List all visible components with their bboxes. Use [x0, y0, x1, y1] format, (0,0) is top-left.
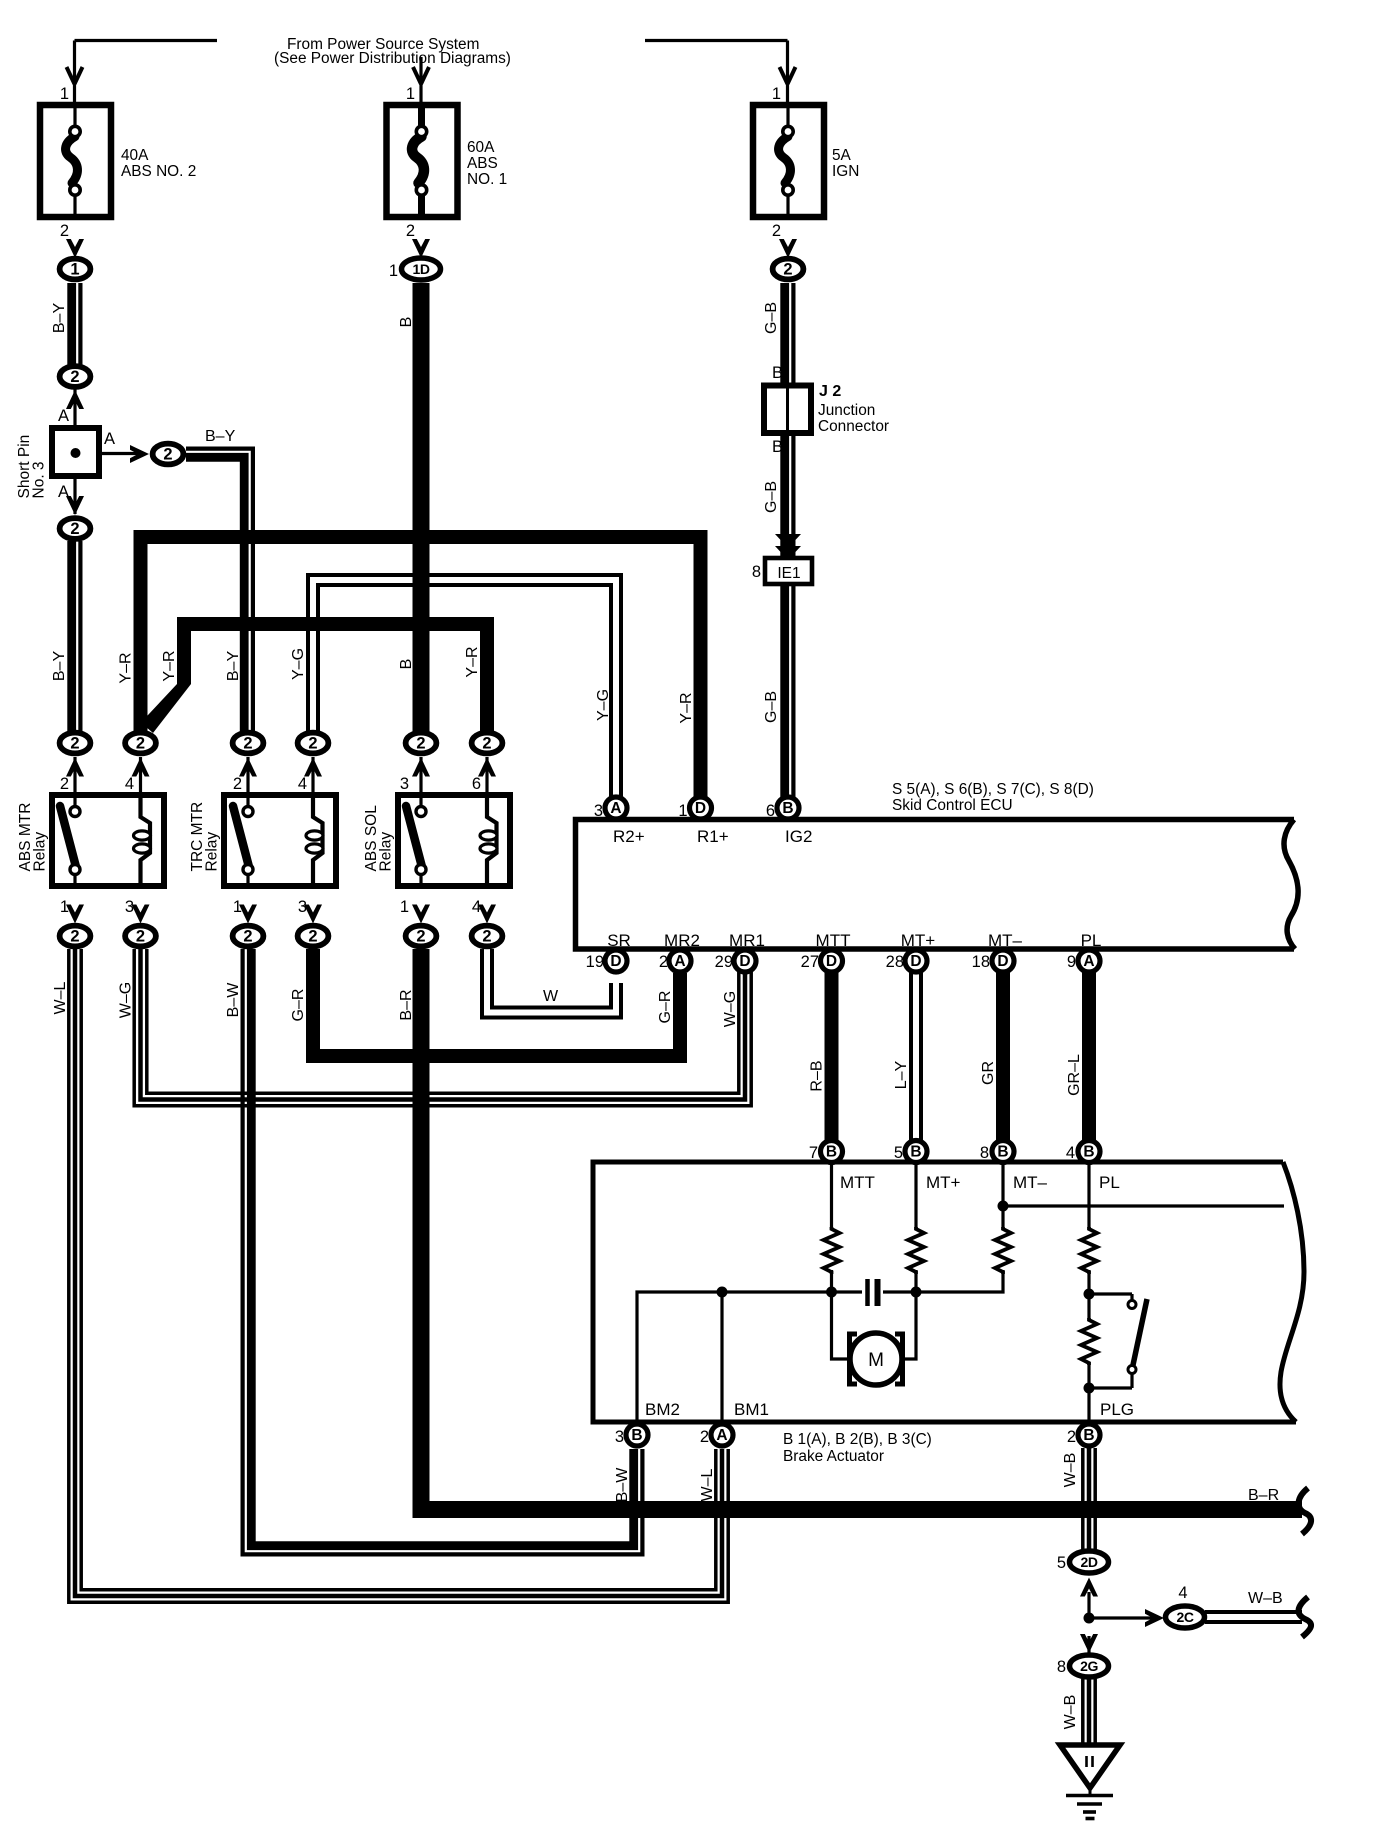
svg-text:S 5(A), S 6(B), S 7(C), S 8(D): S 5(A), S 6(B), S 7(C), S 8(D) — [892, 781, 1094, 798]
svg-text:G–B: G–B — [763, 691, 780, 723]
svg-text:4: 4 — [298, 775, 307, 793]
svg-text:D: D — [695, 800, 706, 817]
svg-text:A: A — [1083, 953, 1094, 970]
svg-text:1: 1 — [389, 262, 398, 280]
svg-text:2C: 2C — [1177, 1609, 1194, 1625]
svg-text:A: A — [610, 800, 621, 817]
svg-text:G–B: G–B — [763, 302, 780, 334]
svg-text:BM2: BM2 — [645, 1400, 680, 1419]
svg-text:29: 29 — [715, 953, 733, 971]
svg-text:BM1: BM1 — [734, 1400, 769, 1419]
svg-text:B: B — [772, 438, 783, 456]
svg-text:M: M — [868, 1350, 884, 1371]
svg-text:1: 1 — [400, 898, 409, 916]
svg-text:A: A — [58, 407, 69, 425]
svg-text:2: 2 — [70, 735, 79, 753]
svg-text:B: B — [910, 1144, 921, 1161]
svg-text:ABS NO. 2: ABS NO. 2 — [121, 163, 196, 180]
svg-text:1: 1 — [772, 85, 781, 103]
svg-text:A: A — [58, 483, 69, 501]
svg-text:Brake Actuator: Brake Actuator — [783, 1448, 884, 1465]
svg-text:B: B — [997, 1144, 1008, 1161]
svg-text:MT–: MT– — [988, 931, 1023, 950]
svg-text:2: 2 — [308, 735, 317, 753]
svg-text:2: 2 — [243, 928, 252, 946]
svg-text:B: B — [772, 364, 783, 382]
svg-text:PL: PL — [1099, 1173, 1120, 1192]
svg-text:3: 3 — [125, 898, 134, 916]
svg-text:MT–: MT– — [1013, 1173, 1048, 1192]
svg-text:B–W: B–W — [614, 1467, 631, 1503]
svg-text:G–R: G–R — [657, 991, 674, 1024]
svg-text:Relay: Relay — [378, 832, 395, 872]
svg-text:PLG: PLG — [1100, 1400, 1134, 1419]
svg-text:MTT: MTT — [816, 931, 851, 950]
svg-text:D: D — [610, 953, 621, 970]
svg-text:3: 3 — [615, 1428, 624, 1446]
svg-text:MR1: MR1 — [729, 931, 765, 950]
svg-text:D: D — [826, 953, 837, 970]
svg-text:NO. 1: NO. 1 — [467, 171, 507, 188]
svg-text:6: 6 — [472, 775, 481, 793]
svg-text:MR2: MR2 — [664, 931, 700, 950]
svg-text:1: 1 — [70, 261, 79, 279]
svg-text:IG2: IG2 — [785, 827, 812, 846]
svg-text:2: 2 — [136, 928, 145, 946]
svg-text:A: A — [674, 953, 685, 970]
svg-text:1: 1 — [60, 85, 69, 103]
svg-text:2: 2 — [416, 735, 425, 753]
svg-text:L–Y: L–Y — [893, 1060, 910, 1089]
svg-text:5A: 5A — [832, 147, 852, 164]
svg-text:R2+: R2+ — [613, 827, 645, 846]
svg-text:B: B — [631, 1427, 642, 1444]
svg-text:2: 2 — [243, 735, 252, 753]
svg-text:3: 3 — [594, 802, 603, 820]
svg-text:3: 3 — [400, 775, 409, 793]
svg-text:1: 1 — [678, 802, 687, 820]
svg-text:MTT: MTT — [840, 1173, 875, 1192]
svg-text:2D: 2D — [1081, 1554, 1098, 1570]
svg-text:Y–R: Y–R — [678, 692, 695, 723]
svg-text:2: 2 — [70, 520, 79, 538]
svg-text:19: 19 — [586, 953, 604, 971]
svg-text:B: B — [398, 659, 415, 670]
svg-text:2: 2 — [70, 368, 79, 386]
svg-text:1: 1 — [233, 898, 242, 916]
svg-text:7: 7 — [809, 1144, 818, 1162]
svg-text:J 2: J 2 — [819, 383, 841, 400]
svg-text:2: 2 — [482, 735, 491, 753]
svg-text:B: B — [782, 800, 793, 817]
svg-text:B: B — [398, 317, 415, 328]
svg-text:W–B: W–B — [1062, 1453, 1079, 1488]
svg-text:IGN: IGN — [832, 163, 859, 180]
svg-text:40A: 40A — [121, 147, 149, 164]
svg-text:B–R: B–R — [1248, 1487, 1279, 1504]
svg-text:2: 2 — [1067, 1428, 1076, 1446]
svg-text:2: 2 — [406, 222, 415, 240]
svg-text:W–L: W–L — [699, 1468, 716, 1501]
svg-text:SR: SR — [607, 931, 631, 950]
svg-text:5: 5 — [1057, 1554, 1066, 1572]
svg-text:Relay: Relay — [32, 832, 49, 872]
svg-text:27: 27 — [801, 953, 819, 971]
svg-text:4: 4 — [1066, 1144, 1075, 1162]
svg-text:2: 2 — [772, 222, 781, 240]
svg-text:PL: PL — [1081, 931, 1102, 950]
svg-text:Skid Control ECU: Skid Control ECU — [892, 797, 1013, 814]
svg-text:W–B: W–B — [1248, 1590, 1283, 1607]
svg-text:GR: GR — [980, 1061, 997, 1085]
svg-text:2: 2 — [416, 928, 425, 946]
svg-text:Y–G: Y–G — [290, 648, 307, 680]
svg-text:B–R: B–R — [398, 989, 415, 1020]
svg-text:R1+: R1+ — [697, 827, 729, 846]
svg-text:D: D — [910, 953, 921, 970]
svg-text:No. 3: No. 3 — [31, 461, 48, 498]
svg-text:D: D — [997, 953, 1008, 970]
svg-text:W: W — [543, 988, 559, 1005]
svg-text:MT+: MT+ — [901, 931, 936, 950]
svg-text:2G: 2G — [1080, 1658, 1098, 1674]
svg-text:2: 2 — [60, 775, 69, 793]
svg-text:B–Y: B–Y — [225, 651, 242, 682]
svg-text:Y–R: Y–R — [118, 652, 135, 683]
svg-text:Relay: Relay — [204, 832, 221, 872]
svg-text:4: 4 — [125, 775, 134, 793]
svg-text:2: 2 — [783, 261, 792, 279]
svg-text:A: A — [716, 1427, 727, 1444]
svg-text:W–B: W–B — [1062, 1695, 1079, 1730]
svg-text:60A: 60A — [467, 139, 495, 156]
svg-text:B 1(A), B 2(B), B 3(C): B 1(A), B 2(B), B 3(C) — [783, 1431, 932, 1448]
svg-text:Y–R: Y–R — [464, 646, 481, 677]
svg-text:Junction: Junction — [818, 402, 875, 419]
svg-text:B–W: B–W — [225, 982, 242, 1018]
svg-text:8: 8 — [1057, 1658, 1066, 1676]
svg-text:B: B — [1083, 1427, 1094, 1444]
svg-text:1: 1 — [60, 898, 69, 916]
svg-text:4: 4 — [472, 898, 481, 916]
svg-text:18: 18 — [972, 953, 990, 971]
svg-text:2: 2 — [482, 928, 491, 946]
svg-text:MT+: MT+ — [926, 1173, 961, 1192]
svg-text:2: 2 — [233, 775, 242, 793]
svg-text:R–B: R–B — [809, 1060, 826, 1091]
svg-text:Y–G: Y–G — [595, 689, 612, 721]
svg-text:W–L: W–L — [52, 981, 69, 1014]
svg-text:5: 5 — [894, 1144, 903, 1162]
svg-text:4: 4 — [1178, 1584, 1187, 1602]
svg-text:3: 3 — [298, 898, 307, 916]
svg-text:2: 2 — [60, 222, 69, 240]
svg-text:A: A — [104, 430, 115, 448]
svg-text:1D: 1D — [413, 261, 430, 277]
svg-text:Y–R: Y–R — [161, 650, 178, 681]
svg-text:G–B: G–B — [763, 481, 780, 513]
svg-text:(See Power Distribution Diagra: (See Power Distribution Diagrams) — [274, 50, 511, 67]
svg-text:9: 9 — [1067, 953, 1076, 971]
svg-text:8: 8 — [980, 1144, 989, 1162]
svg-text:2: 2 — [70, 928, 79, 946]
svg-text:G–R: G–R — [290, 989, 307, 1022]
svg-text:8: 8 — [752, 563, 761, 581]
svg-text:B: B — [826, 1144, 837, 1161]
svg-text:IE1: IE1 — [777, 565, 800, 582]
svg-text:B–Y: B–Y — [51, 303, 68, 334]
svg-text:D: D — [739, 953, 750, 970]
svg-text:2: 2 — [659, 953, 668, 971]
svg-text:B–Y: B–Y — [51, 651, 68, 682]
svg-text:B–Y: B–Y — [205, 428, 236, 445]
svg-text:28: 28 — [886, 953, 904, 971]
svg-text:W–G: W–G — [118, 982, 135, 1018]
svg-text:1: 1 — [406, 85, 415, 103]
svg-text:Connector: Connector — [818, 418, 889, 435]
svg-text:B: B — [1083, 1144, 1094, 1161]
svg-text:2: 2 — [700, 1428, 709, 1446]
svg-text:2: 2 — [136, 735, 145, 753]
svg-text:GR–L: GR–L — [1066, 1054, 1083, 1096]
svg-text:6: 6 — [766, 802, 775, 820]
svg-text:2: 2 — [163, 446, 172, 464]
svg-text:W–G: W–G — [722, 991, 739, 1027]
svg-text:2: 2 — [308, 928, 317, 946]
svg-text:ABS: ABS — [467, 155, 498, 172]
